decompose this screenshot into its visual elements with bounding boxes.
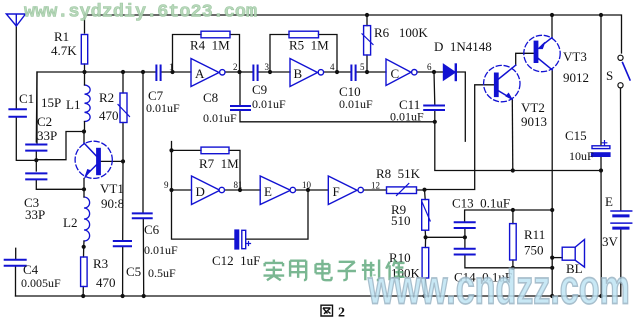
svg-text:D 1N4148: D 1N4148 — [434, 39, 492, 54]
node dot mid rail VT2 emitter — [511, 168, 515, 172]
svg-text:R8 51K: R8 51K — [376, 166, 421, 181]
transistor VT2 — [484, 65, 520, 101]
node dot 9 D input — [169, 188, 173, 192]
wire L2 to R3 to bus — [82, 247, 85, 296]
wire R9 leads — [425, 190, 426, 237]
capacitor C8 — [231, 106, 250, 110]
capacitor C14 — [455, 249, 475, 255]
wire R8 to node, VT2 base return — [417, 85, 495, 190]
svg-text:90:8: 90:8 — [101, 196, 124, 211]
svg-text:0.01uF: 0.01uF — [203, 111, 237, 125]
svg-text:12: 12 — [371, 181, 380, 191]
svg-text:0.005uF: 0.005uF — [21, 276, 61, 290]
svg-text:3: 3 — [265, 62, 270, 72]
node dot rail R2 — [121, 70, 125, 74]
svg-text:C13 0.1uF: C13 0.1uF — [452, 196, 510, 211]
node dot bus R10 — [423, 294, 427, 298]
wire D output node9 stub and R7 loop — [172, 142, 241, 191]
wire C10 to node5 to C input — [357, 71, 387, 73]
wire C output to node6 — [418, 71, 444, 73]
node dot 6 C output — [432, 70, 436, 74]
wire C8 branch: node2 down, cap, corner right to C11 node — [240, 72, 435, 122]
node dot L1 bottom collector — [82, 129, 86, 133]
wire R2 column: rail to R2, R2 to base node, to C5, to bus — [122, 72, 124, 296]
wire speaker stub — [552, 257, 562, 259]
wire R4 feedback loop — [173, 35, 240, 73]
wire diode cathode down stub — [458, 72, 466, 141]
svg-text:9: 9 — [164, 180, 169, 190]
transistor VT3 — [524, 35, 560, 71]
resistor R7 — [201, 147, 229, 154]
wire C13 top corner to R11 line — [465, 210, 553, 221]
svg-text:E: E — [605, 194, 613, 209]
resistor R1 — [81, 35, 87, 65]
capacitor C13 — [455, 222, 475, 228]
diode D — [444, 65, 456, 81]
wire VT2 emitter down to mid rail — [511, 100, 514, 171]
svg-text:R7 1M: R7 1M — [199, 156, 239, 171]
wire antenna lead down to C1 — [15, 26, 17, 108]
capacitor C4 — [5, 260, 26, 266]
svg-text:0.5uF: 0.5uF — [148, 266, 176, 280]
wire VT2 collector up to VT3 base — [516, 53, 535, 65]
svg-text:C: C — [391, 66, 400, 81]
caption tu 2 figure label — [321, 305, 333, 316]
svg-text:VT3: VT3 — [563, 49, 587, 64]
node dot tank junction — [34, 158, 38, 162]
node dot C11 bottom — [433, 120, 437, 124]
wire L1 collector node to tank left branch — [36, 132, 84, 160]
node dot D output — [238, 188, 242, 192]
wire R9R10 node to C13C14 midpoint — [426, 236, 465, 238]
node dot bus C15 — [599, 294, 603, 298]
svg-text:R6 100K: R6 100K — [374, 25, 428, 40]
svg-text:0.01uF: 0.01uF — [390, 110, 424, 124]
resistor R8 — [387, 187, 417, 194]
inverter B — [290, 59, 318, 87]
resistor R10 — [422, 248, 429, 279]
svg-text:1: 1 — [169, 62, 174, 72]
switch S blade — [623, 63, 631, 81]
svg-text:0.01uF: 0.01uF — [252, 97, 286, 111]
antenna — [6, 14, 25, 26]
capacitor C10 — [351, 66, 355, 81]
wire C3 down and right to emitter node — [36, 180, 84, 189]
svg-text:0.01uF: 0.01uF — [144, 243, 178, 257]
svg-text:C4: C4 — [23, 262, 39, 277]
wire switch to battery to ground bus — [620, 88, 622, 296]
wire R11 leads — [512, 210, 514, 268]
inverter E — [260, 176, 290, 205]
svg-text:C15: C15 — [565, 128, 587, 143]
resistor R3 — [81, 257, 88, 287]
wire node2 to C9 — [240, 71, 253, 73]
svg-text:A: A — [195, 66, 205, 81]
node dot 5 C input — [365, 70, 369, 74]
svg-text:L2: L2 — [63, 215, 77, 230]
node dot speaker bottom line — [550, 266, 554, 270]
svg-text:C8: C8 — [203, 90, 218, 105]
node dot mid rail C15 — [599, 168, 603, 172]
node dot rail C6 — [141, 70, 145, 74]
wire R1 bottom lead — [84, 64, 86, 72]
svg-text:S: S — [606, 68, 613, 83]
inverter A — [191, 59, 219, 87]
capacitor C2 — [26, 145, 46, 151]
svg-text:VT1: VT1 — [100, 181, 124, 196]
svg-text:R3: R3 — [93, 256, 108, 271]
capacitor C11 — [424, 106, 444, 111]
node dot 2 A output — [237, 70, 241, 74]
resistor R6 — [364, 26, 371, 55]
svg-text:C2: C2 — [37, 114, 52, 129]
svg-text:4.7K: 4.7K — [51, 43, 77, 58]
svg-text:470: 470 — [96, 275, 116, 290]
svg-text:3V: 3V — [602, 234, 619, 249]
resistor R11 — [510, 224, 517, 260]
wire C11 column node6 down — [433, 72, 436, 122]
svg-text:D: D — [196, 184, 205, 199]
wire rail to C2 top — [35, 72, 38, 142]
node dot R9 R10 junction — [424, 235, 428, 239]
capacitor C3 — [26, 173, 46, 179]
wire A output to node2 — [226, 71, 240, 73]
inverter C — [386, 59, 411, 86]
node dot 3 B input — [268, 70, 272, 74]
svg-text:5: 5 — [360, 62, 365, 72]
wire VT3 collector down to bus — [551, 70, 553, 296]
svg-text:81: 81 — [234, 180, 243, 190]
wire C2 to C3 column segment — [35, 152, 37, 171]
svg-text:C6: C6 — [144, 222, 160, 237]
svg-text:750: 750 — [524, 243, 544, 258]
svg-text:R4 1M: R4 1M — [190, 38, 230, 53]
svg-text:R5 1M: R5 1M — [289, 38, 329, 53]
svg-text:www.cndzz.com: www.cndzz.com — [367, 260, 630, 314]
wire VT1 base to R2 column — [101, 160, 124, 162]
inverter D — [192, 176, 220, 205]
resistor R9 — [422, 200, 429, 231]
node dot VT1 emitter — [82, 187, 86, 191]
svg-text:VT2: VT2 — [521, 100, 545, 115]
inductor L2 — [84, 197, 90, 241]
wire bottom ground bus — [16, 295, 621, 297]
wire D output to E input — [225, 189, 261, 191]
svg-text:33P: 33P — [25, 207, 45, 222]
svg-text:33P: 33P — [37, 128, 57, 143]
node dot R8 R9 junction — [422, 188, 426, 192]
watermark middle shiyong dianzi zhizuo CJK — [264, 260, 405, 281]
wire C14 bottom corner to 267.8 line — [465, 256, 552, 268]
capacitor C12 electrolytic — [235, 230, 239, 249]
inverter F — [328, 176, 357, 205]
wire VT3 emitter from bus — [551, 15, 553, 38]
svg-text:C12 1uF: C12 1uF — [212, 253, 260, 268]
wire C4 branch from bus — [15, 248, 17, 296]
node dot speaker top — [550, 256, 554, 260]
node dot VT1 base column — [121, 159, 125, 163]
svg-text:0.01uF: 0.01uF — [339, 97, 373, 111]
svg-text:C9: C9 — [252, 82, 267, 97]
node dot C13 C14 midpoint — [463, 235, 467, 239]
speaker BL — [562, 247, 575, 260]
node dot bus C6 — [142, 294, 146, 298]
node dot bus speaker column — [550, 294, 554, 298]
transistor VT1 — [75, 141, 112, 178]
capacitor C1 — [9, 109, 26, 117]
capacitor C5 — [114, 241, 131, 246]
node dot 1 A input — [170, 70, 174, 74]
svg-text:4: 4 — [330, 62, 335, 72]
node dot bus top VT3 emitter — [550, 13, 554, 17]
svg-text:2: 2 — [338, 306, 345, 319]
resistor R4 — [201, 31, 230, 38]
svg-text:9012: 9012 — [563, 70, 589, 85]
svg-text:6: 6 — [427, 62, 432, 72]
svg-text:B: B — [294, 66, 303, 81]
switch S contact bottom — [618, 83, 623, 88]
node dot L2 R3 junction — [82, 245, 86, 249]
node dot bus R3 — [81, 294, 85, 298]
wire C1 to junction on C2 column — [16, 118, 36, 160]
resistor R5 — [289, 31, 319, 38]
wire rail C7 to node1 to A input — [162, 71, 191, 73]
svg-text:510: 510 — [391, 213, 411, 228]
wire E output to F input — [296, 189, 329, 191]
svg-text:2: 2 — [233, 62, 238, 72]
wire VT1 emitter vertical — [83, 179, 85, 190]
switch S contact top — [618, 55, 623, 60]
svg-text:R1: R1 — [54, 29, 69, 44]
wire C12 timing loop — [172, 190, 309, 239]
capacitor C7 — [156, 66, 160, 81]
battery E — [611, 210, 632, 212]
node dot R11 top — [511, 208, 515, 212]
svg-text:10uF: 10uF — [569, 149, 594, 163]
svg-text:15P: 15P — [41, 95, 61, 110]
svg-text:R11: R11 — [524, 227, 545, 242]
node dot E output — [306, 188, 310, 192]
wire C15 column: bus to cap to mid rail to ground bus — [600, 15, 602, 296]
wire top supply bus — [85, 15, 622, 53]
wire VT1 collector vertical — [83, 132, 85, 144]
wire C11 node down to mid rail — [435, 122, 601, 171]
wire main signal rail left section — [37, 72, 155, 143]
node dot rail R1/L1 — [82, 70, 86, 74]
svg-text:0.01uF: 0.01uF — [146, 101, 180, 115]
wire C6 column: rail to C6 to bus — [142, 72, 145, 296]
node dot bus C5 — [121, 294, 125, 298]
node dot bus top R6 — [365, 13, 369, 17]
svg-text:10: 10 — [302, 180, 312, 190]
wire R6 leads — [366, 15, 368, 72]
node dot VT3 collector R11 line — [550, 208, 554, 212]
node dot bus top C15 — [599, 13, 603, 17]
svg-text:470: 470 — [99, 108, 119, 123]
svg-text:L1: L1 — [66, 97, 80, 112]
svg-text:www.sydzdiy.6to23.com: www.sydzdiy.6to23.com — [24, 2, 257, 23]
node dot R11 bottom — [511, 266, 515, 270]
wire R5 feedback loop — [270, 35, 337, 73]
wire C9 to node3 to B input — [259, 71, 291, 73]
svg-text:E: E — [264, 184, 272, 199]
svg-text:R2: R2 — [99, 90, 114, 105]
svg-text:C1: C1 — [19, 91, 34, 106]
capacitor C9 — [253, 66, 257, 81]
svg-text:F: F — [333, 184, 340, 199]
capacitor C15 electrolytic — [592, 146, 610, 149]
svg-text:9013: 9013 — [521, 114, 547, 129]
node dot R7 top — [169, 148, 173, 152]
wire F output to R8 — [364, 189, 387, 191]
wire B output to node4 — [325, 71, 352, 73]
node dot 4 B output — [335, 70, 339, 74]
svg-text:C5: C5 — [126, 264, 141, 279]
resistor R2 — [120, 93, 127, 123]
inductor L1 — [85, 85, 91, 121]
capacitor C6 — [133, 213, 152, 218]
wire R10 leads — [425, 237, 426, 296]
wire C13 C14 middle column — [464, 229, 466, 248]
